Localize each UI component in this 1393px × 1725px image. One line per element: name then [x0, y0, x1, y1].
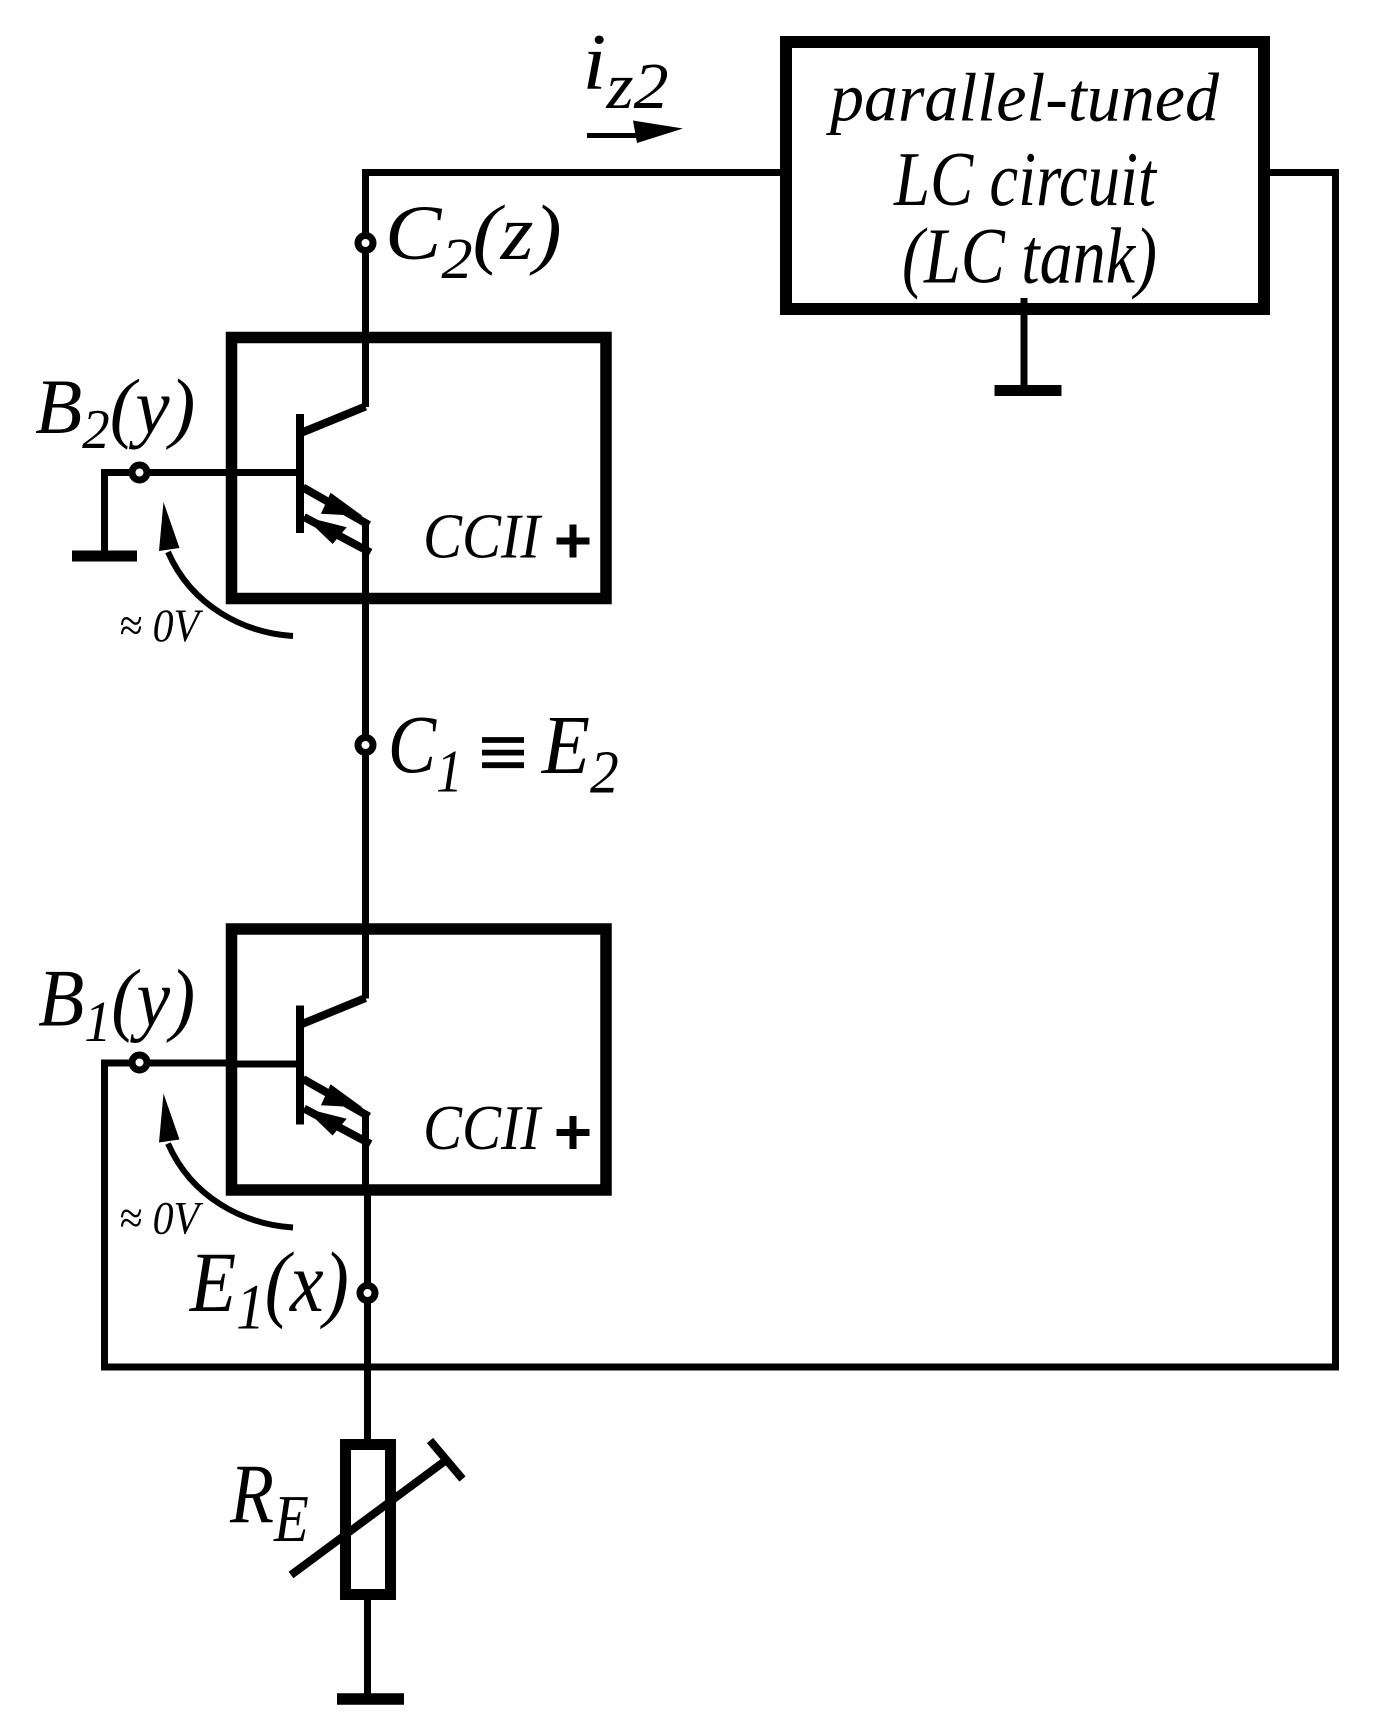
wire B2 branch: node to left corner down to ground: [105, 473, 227, 553]
svg-text:≈ 0V: ≈ 0V: [119, 600, 204, 652]
emitter arrowhead outward: [321, 493, 363, 516]
collector diagonal: [302, 407, 366, 433]
ground below LC tank (bar): [995, 385, 1062, 396]
ground at B2 (bar): [72, 551, 137, 562]
svg-text:(LC tank): (LC tank): [902, 213, 1157, 300]
resistor RE variable diagonal: [291, 1458, 449, 1575]
svg-text:C2(z): C2(z): [385, 189, 562, 292]
resistor RE T-bar: [430, 1441, 463, 1480]
emitter diagonal 2: [304, 517, 371, 553]
current arrow iz2: [587, 133, 650, 138]
wire B1 branch: node to left corner down to bottom wire: [105, 1063, 227, 1367]
svg-text:E1(x): E1(x): [189, 1236, 349, 1344]
svg-text:RE: RE: [229, 1448, 309, 1556]
svg-text:CCII: CCII: [423, 1092, 542, 1163]
node B2 terminal circle: [132, 465, 147, 480]
node B1 terminal circle: [132, 1055, 147, 1070]
base wire: [226, 469, 300, 476]
box parallel-tuned LC circuit (LC tank): [786, 42, 1264, 309]
svg-text:B1(y): B1(y): [38, 954, 195, 1055]
curved arrow ~0V at B1: [168, 1144, 293, 1228]
ground bottom (bar): [337, 1693, 404, 1705]
svg-text:≈ 0V: ≈ 0V: [119, 1193, 204, 1245]
node C2 terminal circle: [358, 236, 373, 251]
svg-text:C1: C1: [388, 699, 463, 806]
wire main vertical upper (C2 to Q2 collector): [362, 169, 369, 407]
op-amp U2: CCII+ block 1 (lower) box: [232, 929, 607, 1190]
node C1/E2 terminal circle: [358, 738, 373, 753]
transistor Q2 (inside upper CCII+ block): [226, 407, 371, 553]
emitter arrowhead inward: [304, 517, 347, 545]
transistor Q1 (inside lower CCII+ block): [226, 998, 371, 1144]
svg-text:E2: E2: [541, 698, 619, 806]
op-amp U1: CCII+ block 2 (upper) box: [232, 338, 607, 599]
base bar: [296, 414, 304, 533]
wire top horizontal from C2 branch to LC tank: [363, 169, 781, 176]
resistor RE body: [346, 1445, 391, 1595]
svg-text:LC circuit: LC circuit: [893, 136, 1157, 222]
curved arrow ~0V at B2: [168, 552, 293, 636]
emitter diagonal 1: [303, 488, 369, 526]
svg-text:B2(y): B2(y): [35, 364, 195, 462]
wire resistor RE to ground: [364, 1595, 371, 1697]
svg-text:parallel-tuned: parallel-tuned: [825, 59, 1219, 136]
wire feedback: LC tank right side down and across bottom to B1: [101, 173, 1336, 1368]
svg-text:iz2: iz2: [583, 17, 669, 122]
ground below LC tank (stem): [1021, 298, 1028, 390]
wire Q1 emitter down through E1 node to resistor RE: [362, 1115, 369, 1191]
node E1 terminal circle: [360, 1286, 375, 1301]
wire Q2 emitter down through C1 node to Q1 collector: [362, 523, 369, 999]
svg-text:CCII: CCII: [423, 501, 542, 572]
